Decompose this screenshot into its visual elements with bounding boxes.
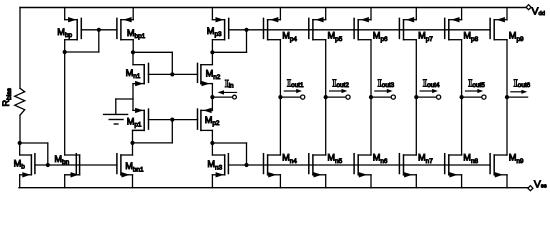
- wire Mp3 source stub: [211, 8, 213, 20]
- transistor Mn6: [354, 154, 371, 178]
- wire n-pair gate bus: [149, 73, 198, 75]
- transistor Mn4: [264, 154, 281, 178]
- ground: [104, 114, 128, 124]
- svg-text:Mn2: Mn2: [206, 69, 221, 81]
- arrow Iout5: [466, 89, 484, 93]
- wire Mp3 drain to Mn2 drain: [211, 52, 213, 64]
- svg-text:Mp2: Mp2: [205, 115, 220, 127]
- svg-text:Mp6: Mp6: [373, 31, 388, 43]
- transistor Mp1: [133, 108, 149, 131]
- wire Mn1 source link: [132, 84, 134, 111]
- wire Mp6 source stub: [370, 8, 372, 20]
- wire Iout6 stub: [507, 96, 528, 98]
- arrow Iout3: [375, 89, 393, 93]
- wire Mbp drain spine: [64, 40, 66, 155]
- svg-text:Mbp1: Mbp1: [127, 28, 146, 40]
- svg-text:Mn5: Mn5: [327, 153, 342, 165]
- arrow Iout1: [284, 89, 302, 93]
- svg-text:Mbp: Mbp: [57, 27, 72, 39]
- transistor Mp8: [445, 17, 462, 40]
- wire Mn2 source to node: [211, 84, 213, 98]
- node Iin junction: [210, 95, 214, 99]
- wire branch 6 lower: [506, 97, 508, 155]
- terminal Iout5: [482, 95, 486, 99]
- transistor Mbn1: [117, 154, 133, 178]
- svg-text:Iout2: Iout2: [332, 77, 349, 89]
- svg-text:Iout4: Iout4: [423, 77, 440, 89]
- wire bias n-gate bus: [35, 164, 117, 166]
- wire Mp5 source stub: [325, 8, 327, 20]
- terminal Iout2: [346, 95, 350, 99]
- transistor Mn9: [490, 154, 507, 178]
- svg-text:Iout6: Iout6: [514, 77, 531, 89]
- node p-bus junction: [244, 28, 248, 32]
- svg-text:Iout3: Iout3: [378, 77, 395, 89]
- node n-bus junction: [244, 163, 248, 167]
- svg-text:Mn9: Mn9: [509, 153, 524, 165]
- node Iout2 junction: [324, 95, 328, 99]
- transistor Mn2: [198, 63, 213, 86]
- wire branch 6 upper: [506, 40, 508, 97]
- node Mbp1 drain junction: [131, 50, 135, 54]
- svg-text:Vdd: Vdd: [532, 6, 545, 18]
- node Mp3 drain junction: [210, 50, 214, 54]
- transistor Mp7: [399, 17, 416, 40]
- terminal Iout4: [437, 95, 441, 99]
- wire Mn8 source to rail: [461, 175, 463, 188]
- transistor Mbn: [65, 154, 80, 178]
- wire Mbn1 source to rail: [132, 175, 134, 188]
- wire branch 3 upper: [370, 40, 372, 97]
- wire p mirror gate bus: [229, 29, 490, 31]
- arrow Iout2: [330, 89, 348, 93]
- wire Mb source to rail: [19, 175, 21, 188]
- wire Mbp diode link: [65, 30, 99, 52]
- node Iout4 junction: [414, 95, 418, 99]
- wire Mbp gate bus: [81, 29, 117, 31]
- wire Mbn source to rail: [64, 175, 66, 188]
- wire Mp9 source stub: [506, 8, 508, 20]
- wire Mp2 drain to Mn3 drain: [211, 143, 213, 155]
- node Iout3 junction: [369, 95, 373, 99]
- svg-text:Mn1: Mn1: [126, 68, 141, 80]
- svg-text:Iout1: Iout1: [287, 77, 304, 89]
- svg-text:Mn8: Mn8: [463, 153, 478, 165]
- wire Mn5 source to rail: [325, 175, 327, 188]
- svg-text:Iin: Iin: [225, 79, 234, 90]
- node Iout1 junction: [278, 95, 282, 99]
- wire Iout4 stub: [416, 96, 436, 98]
- wire Mn4 source to rail: [279, 175, 281, 188]
- wire n mirror gate bus: [228, 164, 490, 166]
- svg-text:Mbn1: Mbn1: [125, 161, 144, 173]
- wire branch 1 upper: [279, 40, 281, 97]
- node Rbias-Mb junction: [18, 141, 22, 145]
- node Mp2 drain junction: [210, 141, 214, 145]
- wire branch 1 lower: [279, 97, 281, 155]
- wire Mp8 source stub: [461, 8, 463, 20]
- wire bottom rail Vss: [19, 187, 528, 189]
- wire Mp3 drain stub: [211, 40, 213, 53]
- wire branch 4 lower: [415, 97, 417, 155]
- transistor Mp5: [309, 17, 326, 40]
- svg-text:Mp9: Mp9: [509, 31, 524, 43]
- transistor Mn3: [212, 154, 228, 178]
- wire Rbias to Mb gate: [20, 143, 48, 165]
- svg-text:Mn7: Mn7: [418, 153, 433, 165]
- resistor Rbias: [15, 8, 25, 144]
- node Mbp drain junction: [63, 50, 67, 54]
- wire D to p-pair gates: [133, 120, 173, 143]
- wire Mb drain stub: [19, 143, 21, 155]
- wire branch 4 upper: [415, 40, 417, 97]
- node Iout5 junction: [460, 95, 464, 99]
- svg-text:Rbias: Rbias: [1, 88, 13, 106]
- transistor Mp6: [354, 17, 371, 40]
- wire Mbp1 drain stub: [132, 40, 134, 53]
- svg-text:Mp7: Mp7: [418, 31, 433, 43]
- svg-text:Mp4: Mp4: [282, 31, 297, 43]
- wire branch 5 upper: [461, 40, 463, 97]
- wire branch 2 upper: [325, 40, 327, 97]
- wire top rail Vdd: [20, 7, 526, 9]
- wire Iin stub: [212, 96, 232, 98]
- arrow Iout4: [420, 89, 438, 93]
- node Iout6 junction: [505, 95, 509, 99]
- svg-text:Mp5: Mp5: [328, 31, 343, 43]
- transistor Mbp1: [117, 17, 133, 40]
- terminal Vdd: [526, 5, 531, 10]
- node Mbp gate junction: [97, 28, 101, 32]
- transistor Mp4: [264, 17, 281, 40]
- wire Mp4 source stub: [279, 8, 281, 20]
- svg-text:Mp3: Mp3: [207, 26, 222, 38]
- transistor Mn1: [133, 63, 149, 86]
- label Rbias: [1, 88, 13, 106]
- wire Iout2 stub: [326, 96, 346, 98]
- svg-text:Iout5: Iout5: [468, 77, 485, 89]
- wire node to Mp2 source: [211, 97, 213, 110]
- wire Mp2 drain stub: [211, 130, 213, 143]
- wire branch 3 lower: [370, 97, 372, 155]
- arrow Iout6: [511, 90, 527, 94]
- wire Mn3 source to rail: [211, 175, 213, 188]
- node p-pair gate junction: [170, 118, 174, 122]
- wire branch 5 lower: [461, 97, 463, 155]
- wire Iout1 stub: [280, 96, 300, 98]
- wire Mp7 source stub: [415, 8, 417, 20]
- wire D to Mbn1 drain: [132, 143, 134, 155]
- wire Mbp source stub: [64, 8, 66, 20]
- node n-mirror gate junction: [170, 72, 174, 76]
- wire Mn9 source to rail: [506, 175, 508, 188]
- svg-text:Vss: Vss: [534, 179, 547, 191]
- terminal Vss: [528, 186, 533, 191]
- transistor Mn5: [309, 154, 326, 178]
- transistor Mn7: [399, 154, 416, 178]
- wire Iout3 stub: [371, 96, 391, 98]
- transistor Mn8: [445, 154, 462, 178]
- transistor Mp9: [490, 17, 507, 40]
- wire Mp3 diode link: [212, 30, 246, 53]
- wire p-pair gate bus: [149, 119, 198, 121]
- wire Mbp1 drain to n-mirror gates: [133, 52, 172, 74]
- terminal Iin: [233, 95, 237, 99]
- terminal Iout1: [301, 95, 305, 99]
- svg-text:Mn6: Mn6: [373, 153, 388, 165]
- node Mb gate junction: [46, 163, 50, 167]
- wire Mbp1 source stub: [132, 8, 134, 20]
- svg-text:Mp8: Mp8: [463, 31, 478, 43]
- svg-text:Mb: Mb: [14, 159, 26, 171]
- svg-text:Mn4: Mn4: [282, 153, 297, 165]
- arrow Iin: [218, 90, 237, 94]
- terminal Iout3: [391, 95, 395, 99]
- wire Mn7 source to rail: [415, 175, 417, 188]
- wire Mn6 source to rail: [370, 175, 372, 188]
- transistor Mb: [20, 154, 35, 178]
- wire branch 2 lower: [325, 97, 327, 155]
- wire Mbp1 drain to Mn1 drain: [132, 52, 134, 64]
- transistor Mp2: [198, 108, 213, 131]
- node D junction: [130, 141, 134, 145]
- transistor Mbp: [65, 17, 82, 40]
- wire Mp2 diode link: [212, 143, 246, 165]
- svg-text:Mn3: Mn3: [207, 159, 222, 171]
- wire Iout5 stub: [462, 96, 482, 98]
- svg-text:Mp1: Mp1: [127, 116, 142, 128]
- transistor Mp3: [212, 17, 228, 40]
- wire Mp1 drain link: [133, 130, 145, 143]
- wire ground link: [116, 99, 133, 114]
